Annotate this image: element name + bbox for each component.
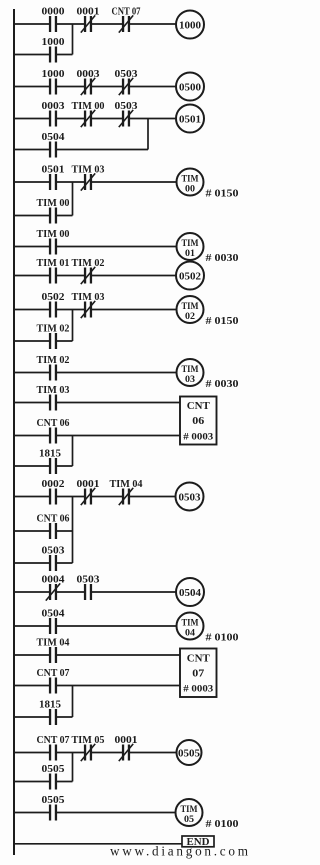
svg-text:05: 05 — [184, 814, 195, 824]
svg-text:0001: 0001 — [77, 479, 100, 490]
svg-text:04: 04 — [185, 628, 196, 638]
svg-text:CNT 06: CNT 06 — [37, 418, 70, 429]
svg-text:TIM 05: TIM 05 — [72, 735, 105, 746]
svg-text:TIM 00: TIM 00 — [37, 229, 70, 240]
svg-text:1815: 1815 — [39, 449, 61, 460]
svg-text:0000: 0000 — [42, 7, 65, 18]
svg-text:# 0150: # 0150 — [206, 189, 239, 200]
svg-text:TIM: TIM — [182, 238, 199, 248]
svg-text:# 0003: # 0003 — [183, 433, 213, 443]
svg-text:0001: 0001 — [77, 7, 100, 18]
svg-text:0503: 0503 — [77, 575, 100, 586]
svg-text:TIM 04: TIM 04 — [110, 479, 144, 490]
svg-text:CNT 07: CNT 07 — [112, 7, 141, 18]
svg-text:0505: 0505 — [178, 748, 200, 759]
svg-text:# 0150: # 0150 — [206, 316, 239, 327]
svg-text:# 0030: # 0030 — [206, 379, 239, 390]
svg-text:TIM: TIM — [182, 301, 199, 311]
svg-text:TIM 03: TIM 03 — [72, 165, 105, 176]
svg-text:# 0100: # 0100 — [206, 819, 239, 830]
svg-text:0501: 0501 — [179, 114, 201, 125]
svg-text:TIM 00: TIM 00 — [37, 198, 70, 209]
svg-text:1815: 1815 — [39, 700, 61, 711]
svg-text:1000: 1000 — [179, 20, 201, 31]
svg-text:03: 03 — [185, 374, 196, 384]
svg-text:07: 07 — [192, 669, 204, 680]
svg-text:TIM: TIM — [182, 364, 199, 374]
svg-text:CNT 06: CNT 06 — [37, 514, 70, 525]
svg-text:06: 06 — [192, 416, 204, 427]
svg-text:TIM 02: TIM 02 — [37, 355, 70, 366]
svg-text:CNT 07: CNT 07 — [37, 735, 70, 746]
svg-text:0505: 0505 — [42, 795, 65, 806]
svg-text:# 0100: # 0100 — [206, 633, 239, 644]
svg-text:TIM: TIM — [182, 174, 199, 184]
svg-text:CNT: CNT — [187, 654, 210, 665]
svg-text:0503: 0503 — [115, 101, 138, 112]
svg-text:0502: 0502 — [179, 271, 201, 282]
svg-text:0002: 0002 — [42, 479, 65, 490]
svg-text:TIM 04: TIM 04 — [37, 638, 71, 649]
svg-text:0001: 0001 — [115, 735, 138, 746]
svg-text:0503: 0503 — [115, 69, 138, 80]
svg-text:www.diangon.com: www.diangon.com — [110, 844, 249, 859]
svg-text:00: 00 — [185, 184, 196, 194]
svg-text:0503: 0503 — [42, 546, 65, 557]
svg-text:0003: 0003 — [77, 69, 100, 80]
svg-text:TIM 00: TIM 00 — [72, 101, 105, 112]
svg-text:1000: 1000 — [42, 37, 65, 48]
svg-text:0004: 0004 — [42, 575, 66, 586]
svg-text:CNT: CNT — [187, 401, 210, 412]
svg-text:0501: 0501 — [42, 165, 65, 176]
svg-text:0003: 0003 — [42, 101, 65, 112]
svg-text:TIM: TIM — [182, 618, 199, 628]
svg-text:1000: 1000 — [42, 69, 65, 80]
svg-text:TIM 03: TIM 03 — [72, 292, 105, 303]
svg-text:0505: 0505 — [42, 764, 65, 775]
svg-text:0504: 0504 — [179, 588, 201, 599]
svg-text:# 0003: # 0003 — [183, 685, 213, 695]
svg-text:TIM 01: TIM 01 — [37, 258, 70, 269]
svg-text:TIM 02: TIM 02 — [72, 258, 105, 269]
svg-text:TIM 03: TIM 03 — [37, 385, 70, 396]
svg-text:0504: 0504 — [42, 132, 66, 143]
svg-text:01: 01 — [185, 248, 196, 258]
svg-text:0500: 0500 — [179, 82, 201, 93]
svg-text:# 0030: # 0030 — [206, 253, 239, 264]
svg-text:0504: 0504 — [42, 609, 66, 620]
svg-text:CNT 07: CNT 07 — [37, 668, 70, 679]
svg-text:0503: 0503 — [179, 492, 201, 503]
svg-text:TIM 02: TIM 02 — [37, 324, 70, 335]
svg-text:TIM: TIM — [181, 804, 198, 814]
svg-text:0502: 0502 — [42, 292, 65, 303]
svg-text:02: 02 — [185, 311, 196, 321]
